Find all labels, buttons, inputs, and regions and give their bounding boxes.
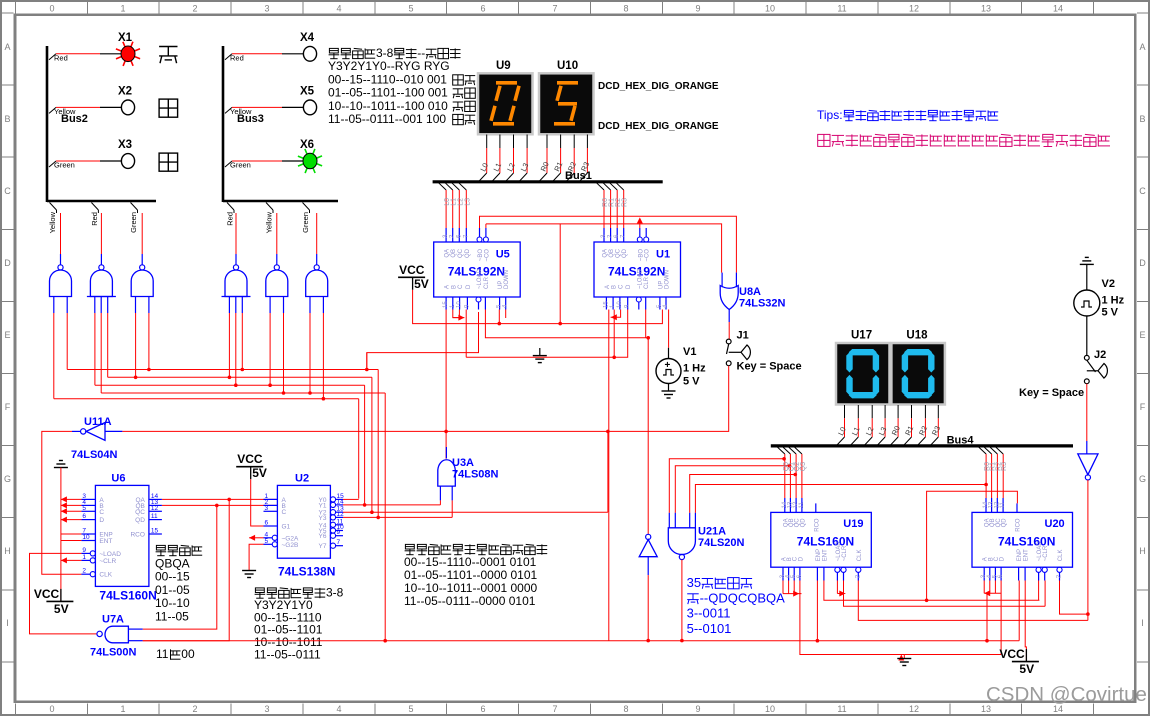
wire Bus3 Red to lamp — [225, 54, 232, 60]
svg-text:Y7: Y7 — [319, 543, 327, 550]
svg-text:X3: X3 — [118, 139, 132, 151]
wire gate input drop x236 — [235, 313, 237, 385]
annotation warning — [818, 134, 830, 146]
svg-text:QD: QD — [1002, 518, 1008, 528]
svg-text:D: D — [798, 556, 804, 561]
svg-text:R3: R3 — [622, 198, 629, 207]
svg-text:Red: Red — [90, 212, 99, 226]
svg-text:11--05: 11--05 — [155, 610, 189, 624]
svg-text:12: 12 — [909, 704, 919, 714]
wire VCC to UP pins — [413, 290, 663, 324]
wire U10 pin R1 to Bus1 — [560, 135, 562, 149]
wire Bus3 stub Green — [303, 203, 310, 211]
svg-text:U10: U10 — [557, 60, 578, 72]
svg-text:QA: QA — [445, 249, 451, 258]
svg-text:11: 11 — [837, 4, 846, 14]
svg-text:3: 3 — [265, 505, 269, 512]
svg-text:ENP: ENP — [816, 549, 822, 561]
legend hanzi green — [159, 153, 178, 171]
wire gate input drop x310 — [309, 313, 311, 393]
svg-text:QC: QC — [458, 248, 464, 258]
svg-text:ENT: ENT — [1024, 549, 1030, 561]
svg-text:1 Hz: 1 Hz — [683, 363, 706, 375]
svg-text:11: 11 — [156, 647, 169, 661]
svg-text:8: 8 — [623, 4, 628, 14]
wire U21A output to bottom net — [681, 560, 683, 641]
wire U11A output stub — [72, 430, 81, 432]
wire Y3 to U3A in2 — [343, 516, 452, 518]
svg-text:CLR: CLR — [484, 276, 490, 289]
lamp X5 — [303, 100, 316, 115]
svg-text:15: 15 — [151, 528, 159, 535]
svg-text:10--10--1011--0001 0000: 10--10--1011--0001 0000 — [404, 581, 538, 595]
wire U21A in1 — [669, 459, 784, 513]
svg-text:3--0011: 3--0011 — [687, 606, 731, 621]
ground U2 — [242, 570, 256, 572]
svg-text:Red: Red — [54, 53, 68, 62]
wire U19 ABCD tie — [782, 581, 784, 594]
wire bottom net — [143, 640, 1020, 642]
svg-text:L3: L3 — [464, 198, 471, 206]
svg-text:2: 2 — [192, 4, 197, 14]
svg-text:Tips:: Tips: — [817, 108, 843, 122]
wire gnd to ABCD — [60, 468, 62, 602]
wire gate input drop x270 — [269, 313, 271, 385]
wire Bus3 stub Yellow — [266, 203, 273, 211]
svg-text:RCO: RCO — [814, 518, 820, 532]
svg-text:9: 9 — [695, 4, 700, 14]
svg-text:Y3Y2Y1Y0--RYG RYG: Y3Y2Y1Y0--RYG RYG — [328, 59, 450, 73]
7-segment display U10 — [539, 73, 594, 134]
svg-text:C: C — [1139, 186, 1146, 196]
svg-text:10: 10 — [82, 534, 90, 541]
svg-text:~LOAD: ~LOAD — [836, 541, 842, 562]
wire U3A in2 red — [451, 500, 453, 517]
svg-text:X6: X6 — [300, 139, 314, 151]
svg-text:14: 14 — [337, 498, 345, 505]
wire U1 DOWN to V1 — [668, 310, 670, 348]
wire gate G4 output up — [235, 213, 237, 254]
svg-text:VCC: VCC — [237, 452, 263, 466]
wire U19 ~LOAD ~CLR tie — [836, 581, 838, 594]
wire display pin R1 to Bus4 — [911, 405, 913, 418]
svg-text:Green: Green — [54, 161, 75, 170]
wire Bus4 to counter Q1 — [783, 447, 791, 454]
wire net BCD to U1 D — [466, 310, 628, 358]
wire Y2 line — [343, 511, 608, 513]
svg-text:Green: Green — [301, 212, 310, 233]
svg-text:QC: QC — [135, 509, 145, 516]
svg-text:15: 15 — [603, 301, 609, 308]
switch J2 — [1084, 355, 1089, 360]
wire U10 pin R2 to Bus1 — [573, 135, 575, 149]
svg-text:X5: X5 — [300, 85, 315, 97]
svg-text:U19: U19 — [843, 518, 863, 530]
wire U10 pin R0 to Bus1 — [546, 135, 548, 149]
svg-text:E: E — [4, 330, 10, 340]
wire U8A output to J1 — [728, 322, 730, 339]
svg-text:F: F — [1140, 402, 1146, 412]
wire display pin L3 to Bus4 — [884, 405, 886, 418]
svg-text:X2: X2 — [118, 85, 132, 97]
svg-text:CSDN @Covirtue: CSDN @Covirtue — [986, 683, 1147, 706]
wire U19 ENT line — [824, 581, 1040, 601]
svg-text:Bus2: Bus2 — [61, 113, 88, 125]
svg-text:74LS32N: 74LS32N — [739, 298, 786, 310]
wire display pin R0 to Bus4 — [897, 405, 899, 418]
ground center — [533, 355, 547, 357]
svg-text:11: 11 — [1000, 502, 1006, 509]
wire U20 D to ground line — [1000, 581, 1002, 655]
wire display pin L1 to Bus4 — [857, 405, 859, 418]
svg-text:74LS00N: 74LS00N — [90, 647, 137, 659]
svg-text:C: C — [458, 284, 464, 289]
wire riser Y2 — [371, 377, 373, 512]
power VCC 5V U6 — [46, 600, 73, 602]
svg-text:G: G — [1139, 474, 1146, 484]
svg-text:~LOAD: ~LOAD — [99, 551, 121, 558]
svg-text:Bus3: Bus3 — [237, 113, 264, 125]
svg-text:UP: UP — [658, 281, 664, 289]
svg-text:--: -- — [417, 46, 425, 60]
bus Bus2 vertical — [46, 46, 49, 202]
wire U21A in3 — [690, 475, 796, 513]
svg-text:VCC: VCC — [999, 647, 1025, 661]
wire J1 to Y2 net — [608, 366, 729, 432]
wire gate input drop x95 — [94, 313, 96, 385]
wire Bus1 to counter pin R0 — [597, 183, 605, 190]
svg-text:J1: J1 — [737, 330, 749, 342]
wire Bus3 Yellow to lamp — [225, 107, 232, 113]
svg-text:11--05--0111--001 100: 11--05--0111--001 100 — [328, 112, 446, 126]
wire ground stub — [539, 348, 541, 356]
svg-text:5: 5 — [408, 4, 413, 14]
wire U20 ENT to VCC — [1025, 581, 1026, 662]
svg-text:Q3: Q3 — [800, 462, 807, 471]
wire gate input drop x101 — [100, 313, 102, 393]
svg-text:QD: QD — [622, 248, 628, 258]
annotation states — [156, 545, 167, 555]
svg-text:0: 0 — [49, 704, 54, 714]
wire display pin R3 to Bus4 — [937, 405, 939, 418]
wire ground stub right — [903, 655, 905, 659]
svg-text:UP: UP — [498, 281, 504, 289]
bus Bus4 — [771, 444, 1073, 447]
wire riser H4 down — [384, 393, 386, 641]
wire U3A input 1 stub — [439, 486, 441, 500]
svg-text:RCO: RCO — [1016, 518, 1022, 532]
svg-text:F: F — [5, 402, 11, 412]
svg-text:Key = Space: Key = Space — [737, 361, 802, 373]
ground U6 data — [54, 467, 68, 469]
svg-text:QD: QD — [465, 248, 471, 258]
wire gate G2 output up — [100, 213, 102, 254]
wire Bus1 to counter pin R1 — [603, 183, 611, 190]
svg-text:CLK: CLK — [1058, 550, 1064, 562]
svg-text:01--05: 01--05 — [155, 583, 190, 597]
svg-text:C: C — [4, 186, 11, 196]
wire riser Y1 — [364, 385, 366, 505]
wire riser H5b — [366, 353, 368, 370]
annotation decode table top — [329, 48, 340, 58]
svg-text:9: 9 — [82, 547, 86, 554]
wire gate input drop x67 — [66, 313, 68, 370]
ground V1 — [662, 390, 676, 392]
svg-text:00--15: 00--15 — [155, 570, 190, 584]
svg-text:Yellow: Yellow — [48, 211, 57, 233]
svg-text:74LS160N: 74LS160N — [99, 588, 156, 602]
svg-text:--QDQCQBQA: --QDQCQBQA — [700, 590, 786, 605]
nand-gate U7A 74LS00N — [105, 626, 128, 643]
wire gate G6 output up — [316, 213, 318, 254]
and-gate U3A 74LS08N — [438, 460, 456, 486]
svg-text:9: 9 — [695, 704, 700, 714]
wire U8A output stub — [728, 310, 730, 323]
svg-text:00--15--1110--0001 0101: 00--15--1110--0001 0101 — [404, 555, 537, 569]
svg-text:QBQA: QBQA — [155, 556, 190, 570]
svg-text:U3A: U3A — [452, 457, 474, 469]
wire Bus4 to counter R3 — [996, 447, 1004, 454]
wire U21A input stub — [689, 513, 691, 528]
wire Bus4 to counter Q0 — [777, 447, 785, 454]
lamp X3 — [121, 154, 134, 169]
svg-text:U21A: U21A — [698, 526, 726, 538]
svg-text:11: 11 — [151, 513, 158, 520]
svg-text:4: 4 — [336, 704, 341, 714]
svg-text:0: 0 — [49, 4, 54, 14]
wire T1 input from bottom net — [647, 575, 649, 641]
counter U1 74LS192N — [594, 242, 681, 297]
wire U10 pin R3 to Bus1 — [586, 135, 588, 149]
wire U20 ~CLR — [1044, 581, 1046, 607]
svg-text:12: 12 — [151, 505, 159, 512]
svg-text:DCD_HEX_DIG_ORANGE: DCD_HEX_DIG_ORANGE — [598, 121, 719, 132]
wire VCC to G1 — [251, 479, 264, 526]
svg-text:Bus1: Bus1 — [565, 170, 592, 182]
svg-text:Y6: Y6 — [319, 533, 327, 540]
svg-text:Yellow: Yellow — [265, 211, 274, 233]
svg-text:1: 1 — [82, 554, 86, 561]
wire U21A in4 — [695, 485, 986, 513]
ground right — [897, 658, 911, 660]
svg-text:5V: 5V — [1019, 662, 1034, 676]
svg-text:U7A: U7A — [102, 614, 124, 626]
svg-text:L2: L2 — [457, 198, 464, 206]
wire U3A output stub — [445, 447, 447, 458]
svg-text:3: 3 — [264, 4, 269, 14]
svg-text:C: C — [99, 509, 104, 516]
svg-text:~CO: ~CO — [645, 249, 651, 262]
bus Bus3 horizontal — [223, 200, 338, 203]
svg-text:1 Hz: 1 Hz — [1102, 295, 1125, 307]
wire V2 to J2 — [1086, 316, 1088, 355]
svg-text:5--0101: 5--0101 — [687, 621, 732, 636]
svg-text:01--05--1101--0000 0101: 01--05--1101--0000 0101 — [404, 568, 538, 582]
wire U19 D to ground line — [800, 581, 904, 655]
svg-text:15: 15 — [443, 301, 449, 308]
annotation decode38 — [255, 588, 266, 598]
svg-text:01--05--1101--100 001: 01--05--1101--100 001 — [328, 86, 448, 100]
svg-text:E: E — [1139, 330, 1145, 340]
svg-text:Green: Green — [230, 161, 251, 170]
svg-text:CLK: CLK — [99, 572, 112, 579]
wire ENP ENT to VCC — [61, 533, 82, 535]
wire U21A input stub — [668, 513, 670, 528]
wire U7A input 2 stub — [128, 640, 142, 642]
wire U19 CLK — [858, 581, 1088, 621]
wire U7A input 1 stub — [128, 628, 142, 630]
wire U5 ~LOAD — [367, 312, 479, 370]
wire gate G3 output up — [141, 213, 143, 254]
svg-text:Y3: Y3 — [319, 515, 327, 522]
svg-text:DOWN: DOWN — [665, 270, 671, 289]
wire riser to U20 RCO — [927, 491, 1018, 600]
wire gate input drop x108 — [107, 313, 109, 377]
svg-text:Y1: Y1 — [319, 502, 327, 509]
wire QB riser to U7A in1 — [143, 505, 217, 629]
svg-text:5: 5 — [82, 505, 86, 512]
legend hanzi yellow — [159, 99, 178, 117]
svg-text:U6: U6 — [111, 472, 125, 484]
svg-text:VCC: VCC — [399, 263, 425, 277]
svg-text:D: D — [4, 258, 11, 268]
svg-text:ENT: ENT — [99, 538, 112, 545]
lamp X6 — [315, 163, 323, 166]
svg-text:A: A — [1139, 42, 1145, 52]
svg-text:U9: U9 — [496, 60, 511, 72]
counter U20 74LS160N — [972, 512, 1073, 567]
svg-text:G: G — [4, 474, 11, 484]
bus Bus3 vertical — [222, 46, 225, 202]
svg-text:5 V: 5 V — [1102, 307, 1119, 319]
svg-text:U5: U5 — [496, 249, 510, 261]
lamp X4 — [303, 46, 316, 61]
counter U19 74LS160N — [771, 512, 872, 567]
wire U1 B drop — [613, 310, 615, 358]
inverter T1 — [646, 534, 651, 539]
svg-text:A: A — [4, 42, 10, 52]
svg-text:~LOAD: ~LOAD — [477, 268, 483, 289]
wire U6 QA to U2 A — [162, 498, 277, 500]
svg-text:5V: 5V — [54, 602, 69, 616]
svg-text:10: 10 — [457, 301, 463, 308]
source V2 1Hz — [1086, 264, 1088, 290]
svg-text:74LS04N: 74LS04N — [71, 449, 118, 461]
power VCC 5V right — [1012, 661, 1039, 663]
svg-text:10--10: 10--10 — [155, 596, 190, 610]
svg-text:ENP: ENP — [1017, 549, 1023, 561]
svg-text:~CLR: ~CLR — [842, 545, 848, 561]
wire Bus4 to counter R1 — [984, 447, 992, 454]
wire U1 A to bottom net — [608, 310, 610, 641]
svg-text:~BO: ~BO — [638, 249, 644, 262]
power VCC 5V U2 — [236, 466, 263, 468]
counter U6 74LS160N — [95, 485, 148, 586]
wire U20 ENP to bottom net — [1018, 581, 1020, 641]
svg-text:H: H — [4, 546, 11, 556]
svg-text:G1: G1 — [282, 524, 291, 531]
bus Bus1 — [433, 180, 663, 183]
wire band H5 — [54, 398, 359, 400]
wire U8A input 1 stub — [721, 273, 723, 288]
power VCC 5V for counters — [398, 276, 425, 278]
svg-text:11: 11 — [837, 704, 846, 714]
svg-text:H: H — [1139, 546, 1146, 556]
svg-text:A: A — [605, 285, 611, 289]
svg-text:C: C — [282, 509, 287, 516]
wire gate input drop x136 — [135, 313, 137, 377]
svg-text:5 V: 5 V — [683, 376, 700, 388]
wire U9 pin L1 to Bus1 — [499, 135, 501, 149]
svg-text:Red: Red — [230, 53, 244, 62]
wire gate input drop x54 — [53, 313, 55, 399]
svg-text:74LS20N: 74LS20N — [698, 537, 745, 549]
svg-text:U11A: U11A — [84, 416, 112, 428]
svg-text:Red: Red — [226, 212, 235, 226]
svg-text:11--05--0111--0000 0101: 11--05--0111--0000 0101 — [404, 594, 536, 608]
svg-text:10: 10 — [617, 301, 623, 308]
svg-text:10: 10 — [765, 704, 775, 714]
legend hanzi red — [159, 47, 177, 64]
wire gate input drop x229 — [228, 313, 230, 377]
wire Y1 to U3A in1 — [343, 504, 440, 506]
nand-gate gate G4 — [225, 270, 247, 297]
svg-text:CLR: CLR — [644, 276, 650, 289]
svg-text:Green: Green — [129, 212, 138, 233]
nand-gate gate G3 — [131, 270, 153, 297]
svg-text:DCD_HEX_DIG_ORANGE: DCD_HEX_DIG_ORANGE — [598, 81, 719, 92]
svg-text:U20: U20 — [1045, 518, 1065, 530]
svg-text:QB: QB — [451, 249, 457, 258]
svg-text:~CLR: ~CLR — [99, 558, 116, 565]
wire U5 B C D tie — [453, 310, 460, 318]
wire U5 pin A to U3A output — [445, 310, 447, 459]
svg-text:QA: QA — [603, 249, 609, 258]
svg-text:~CO: ~CO — [484, 249, 490, 262]
svg-text:U17: U17 — [851, 330, 872, 342]
wire Bus2 Red to lamp — [49, 54, 56, 60]
wire band H3 — [95, 384, 365, 386]
wire gate input drop x242 — [241, 313, 243, 370]
svg-text:13: 13 — [981, 4, 991, 14]
wire U21A input stub — [694, 513, 696, 528]
wire U11A output to U6 CLK — [42, 431, 82, 574]
wire U20 CLK to V2 — [1060, 581, 1088, 615]
inverter U11A 74LS04N — [86, 423, 105, 441]
lamp X2 — [121, 100, 134, 115]
wire Bus4 to counter R2 — [990, 447, 998, 454]
svg-text:5V: 5V — [252, 466, 267, 480]
wire U5 ~BO to U8A input 2 — [480, 216, 737, 272]
nand-gate gate G5 — [266, 270, 288, 297]
nand-gate gate G1 — [50, 270, 72, 297]
7-segment display U17 — [836, 343, 890, 405]
svg-text:7: 7 — [337, 539, 341, 546]
wire U3A in1 red — [439, 500, 441, 505]
svg-text:A: A — [445, 285, 451, 289]
wire CLR net U5 to U1 to inverter — [485, 310, 648, 535]
wire J2 to T2 — [1086, 384, 1088, 441]
wire H4 riser join — [383, 639, 387, 643]
svg-text:U18: U18 — [906, 330, 928, 342]
svg-text:I: I — [1141, 618, 1144, 628]
wire Bus1 to counter pin R2 — [610, 183, 618, 190]
wire riser Y3 — [377, 370, 379, 518]
svg-text:X4: X4 — [300, 32, 315, 44]
wire display pin L2 to Bus4 — [871, 405, 873, 418]
wire net to U8A input 1 — [486, 224, 722, 273]
wire T1 input stub — [647, 557, 649, 575]
